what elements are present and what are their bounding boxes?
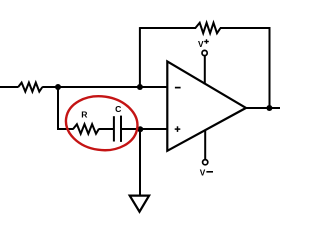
svg-text:R: R [81,110,88,120]
V+ supply stub [204,55,206,84]
resistor (feedback, unlabeled) [195,23,220,33]
wire: feedback top left segment [140,27,196,29]
ground [130,196,149,212]
op-amp inverting input minus sign [175,87,181,89]
op-amp U1 [167,61,246,150]
V- terminal circle [203,160,208,165]
svg-text:V: V [198,39,204,49]
resistor (input, unlabeled) [18,83,42,92]
node: non-inverting input junction [137,126,143,132]
wire: input node to inverting input [42,86,167,88]
svg-text:V: V [200,167,206,177]
wire: input left segment [0,86,18,88]
svg-text:C: C [115,104,121,114]
highlight ellipse (red annotation around R and C) [62,92,141,155]
capacitor C (plates) [113,116,115,141]
V+ terminal circle [202,50,207,55]
wire: feedback top right segment [220,27,270,29]
node: output junction [266,105,272,111]
wire: C to non-inverting input [121,128,168,130]
wire: branch down from input node [57,87,59,130]
wire: feedback right vertical [269,27,271,108]
wire: ground drop [139,129,141,196]
op-amp non-inverting input plus sign [175,126,181,132]
wire: RC branch left segment [57,128,73,130]
wire: feedback left vertical [139,27,141,87]
V- supply stub [204,130,206,160]
node: feedback junction [137,84,143,90]
node: input junction [55,84,61,90]
wire: R to C [99,128,114,130]
resistor R [73,124,99,134]
wire: output [245,107,280,109]
